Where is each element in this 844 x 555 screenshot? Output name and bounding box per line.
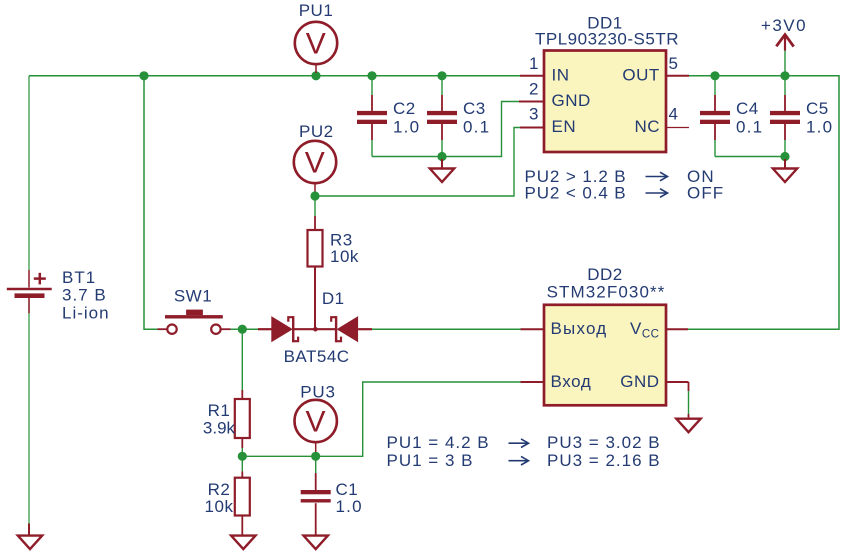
svg-text:0.1: 0.1: [463, 117, 490, 136]
node junction (242.3,329.2): [238, 325, 247, 334]
svg-text:Вход: Вход: [551, 372, 592, 391]
svg-text:C5: C5: [806, 99, 829, 118]
battery BT1: [7, 270, 52, 313]
node junction (144,76): [139, 71, 148, 80]
node junction (715,76): [710, 71, 719, 80]
voltmeter PU2: [294, 141, 336, 192]
svg-text:C1: C1: [336, 480, 359, 499]
node junction (785,156.5): [780, 152, 789, 161]
wire main top rail: [29, 75, 522, 77]
svg-text:OFF: OFF: [687, 184, 724, 203]
voltmeter PU1: [295, 22, 337, 73]
svg-text:STM32F030**: STM32F030**: [547, 283, 666, 302]
capacitor C3: [427, 76, 457, 157]
ground under C3: [430, 159, 454, 182]
wire OUT rail to VCC: [688, 76, 839, 329]
svg-text:PU1 = 4.2 В: PU1 = 4.2 В: [387, 433, 490, 452]
node junction (372,76): [367, 71, 376, 80]
svg-text:TPL903230-S5TR: TPL903230-S5TR: [535, 30, 679, 49]
ground under C1: [304, 536, 328, 550]
svg-text:V: V: [305, 405, 326, 438]
node junction (242.3,456.3): [238, 452, 247, 461]
svg-text:3.9k: 3.9k: [203, 418, 236, 437]
wire D1 to DD2 out pin: [372, 328, 522, 330]
wire DD2 gnd down: [688, 382, 690, 418]
resistor R3: [308, 196, 323, 329]
ground under C5: [773, 159, 797, 182]
svg-text:PU3: PU3: [300, 383, 335, 402]
svg-text:C3: C3: [463, 99, 486, 118]
svg-text:1.0: 1.0: [806, 117, 833, 136]
svg-text:V: V: [305, 146, 326, 179]
svg-text:BT1: BT1: [62, 268, 96, 287]
svg-text:PU2 < 0.4 В: PU2 < 0.4 В: [525, 184, 627, 203]
diode D1 BAT54C: [258, 316, 372, 342]
switch SW1: [158, 310, 231, 334]
svg-text:D1: D1: [322, 289, 345, 308]
capacitor C1: [301, 456, 331, 535]
svg-text:EN: EN: [552, 117, 577, 136]
svg-text:C2: C2: [393, 99, 416, 118]
wire battery branch down left: [28, 76, 30, 270]
ground under DD2: [676, 419, 700, 433]
node junction (316,76): [311, 71, 320, 80]
capacitor C4: [700, 76, 730, 157]
ground under R2: [231, 536, 255, 550]
svg-text:10k: 10k: [330, 247, 359, 266]
svg-text:R2: R2: [208, 480, 231, 499]
svg-text:PU2: PU2: [299, 122, 334, 141]
svg-text:PU3 = 3.02 В: PU3 = 3.02 В: [547, 433, 661, 452]
node junction (785,76): [780, 71, 789, 80]
svg-text:V: V: [306, 27, 327, 60]
ground under BT1: [18, 524, 42, 550]
node junction (442,156.5): [437, 152, 446, 161]
svg-text:Выход: Выход: [551, 319, 608, 338]
power +3V0: [776, 35, 793, 76]
wire C4 bottom to C5 bottom: [715, 156, 785, 158]
svg-text:PU1: PU1: [299, 1, 334, 20]
svg-text:GND: GND: [552, 91, 591, 110]
capacitor C5: [770, 76, 800, 157]
wire SW1 to D1: [231, 328, 258, 330]
node junction (442,76): [437, 71, 446, 80]
svg-text:R1: R1: [208, 401, 231, 420]
svg-text:IN: IN: [552, 66, 570, 85]
capacitor C2: [357, 76, 387, 157]
arrow: [646, 172, 668, 197]
node junction (315.7,456.3): [311, 452, 320, 461]
svg-text:5: 5: [669, 54, 679, 73]
mcu chip DD2: [521, 305, 689, 406]
svg-text:OUT: OUT: [622, 66, 659, 85]
svg-text:1.0: 1.0: [336, 497, 363, 516]
resistor R2: [235, 456, 250, 535]
svg-text:SW1: SW1: [174, 287, 212, 306]
wire divider node rail: [242, 382, 522, 456]
svg-text:Li-ion: Li-ion: [62, 304, 110, 323]
svg-text:10k: 10k: [205, 497, 234, 516]
svg-text:+3V0: +3V0: [761, 16, 807, 35]
op chip DD1: [519, 51, 689, 153]
svg-text:3.7 В: 3.7 В: [62, 286, 107, 305]
wire PU2 to EN: [316, 128, 522, 197]
svg-text:C4: C4: [736, 99, 759, 118]
svg-text:1.0: 1.0: [393, 117, 420, 136]
svg-text:2: 2: [529, 79, 539, 98]
wire SW1 branch vertical x=144: [144, 76, 158, 329]
svg-text:GND: GND: [620, 372, 659, 391]
wire battery bottom to ground: [28, 298, 30, 524]
svg-text:4: 4: [669, 105, 679, 124]
svg-text:1: 1: [529, 54, 539, 73]
svg-text:3: 3: [529, 105, 539, 124]
wire cap bottoms to GND pin: [372, 102, 522, 157]
svg-text:PU3 = 2.16 В: PU3 = 2.16 В: [547, 451, 661, 470]
node junction (315,196): [310, 191, 319, 200]
voltmeter PU3: [295, 400, 337, 452]
svg-text:BAT54C: BAT54C: [284, 347, 350, 366]
svg-text:DD2: DD2: [587, 265, 623, 284]
svg-text:NC: NC: [634, 117, 660, 136]
svg-text:0.1: 0.1: [736, 117, 763, 136]
svg-text:PU1 = 3 В: PU1 = 3 В: [387, 451, 474, 470]
resistor R1: [235, 329, 250, 456]
